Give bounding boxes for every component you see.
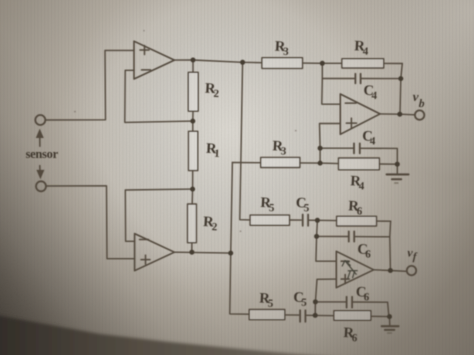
label R3 (row B)	[272, 138, 288, 157]
label R6 (row C)	[348, 198, 364, 217]
label R4 (row B)	[350, 173, 366, 192]
label R6 (row D)	[343, 325, 359, 344]
label C6 (row C)	[357, 241, 372, 260]
node: row A / line A	[240, 60, 245, 65]
node: row D C5-R6	[313, 313, 318, 318]
svg-text:1: 1	[214, 148, 220, 160]
capacitor C4 (row A) plates	[355, 74, 360, 84]
capacitor C4 (row B) plates	[354, 143, 360, 153]
pencil scribble inside U4	[342, 261, 356, 275]
node: C4a right	[398, 76, 403, 81]
label C5 (row D)	[293, 290, 308, 309]
resistor R5 (row C)	[250, 215, 289, 225]
op-amp U2 (bottom-left)	[135, 234, 175, 271]
label R3 (row A)	[274, 39, 290, 58]
wire row D segments	[285, 315, 390, 317]
resistor R6 (row C)	[337, 216, 377, 226]
node: U1 out / R2 top	[191, 58, 196, 63]
wire feedback top to U1 -	[125, 70, 193, 122]
terminal vb	[415, 110, 424, 119]
label vf	[407, 245, 419, 263]
wire row A segments	[303, 62, 403, 64]
resistor R4 (row B)	[339, 158, 380, 170]
wire U4 + input	[315, 279, 336, 315]
wire capacitor C4 row A branch	[322, 63, 402, 114]
resistor R3 (row A)	[262, 58, 303, 69]
wire capacitor C4 row B branch	[320, 148, 397, 164]
op-amp U4 (v_f)	[336, 251, 373, 287]
node: U2 out / R2 bottom	[189, 250, 194, 255]
capacitor C6 (row C) plates	[349, 231, 354, 241]
resistor R4 (row A)	[342, 59, 384, 68]
wire U3 - input	[322, 79, 341, 105]
resistor R3 (row B)	[261, 157, 300, 167]
terminal vf	[407, 266, 416, 275]
svg-text:b: b	[418, 98, 425, 110]
label vb	[412, 89, 426, 110]
wire feedback bottom to U2 -	[125, 189, 192, 241]
wire U3 + tap	[320, 124, 341, 149]
svg-text:sensor: sensor	[26, 147, 59, 161]
sensor arrow down	[39, 166, 41, 172]
label C5 (row C)	[295, 195, 310, 214]
label R1	[206, 141, 221, 160]
label R4 (row A)	[354, 38, 370, 57]
wire R1 links	[192, 121, 194, 189]
resistor R5 (row D)	[249, 310, 285, 320]
ground (row D)	[389, 317, 391, 326]
wire to resistor R2 top	[192, 60, 194, 121]
capacitor C6 (row D) plates	[347, 297, 353, 308]
node: row B R3-R4	[318, 161, 323, 166]
label C4 (row B)	[362, 128, 377, 147]
node: C6d left	[313, 299, 318, 304]
wire row C segments	[290, 220, 391, 221]
node: row A R3-R4	[320, 61, 325, 66]
ground (row B)	[396, 164, 398, 175]
node: U3 out	[397, 112, 402, 117]
resistor R1	[189, 131, 198, 170]
wire U1 output row A	[174, 60, 262, 63]
wire node B column (rowB corner to U2 out to row D)	[230, 163, 249, 315]
capacitor C5 (row D) plates	[300, 310, 305, 322]
terminal sensor bottom	[36, 181, 46, 191]
label R5 (row C)	[260, 195, 276, 214]
node: U2 out / line B	[228, 251, 233, 256]
wire capacitor C6 row C branch	[317, 220, 391, 270]
op-amp U3 (v_b)	[340, 94, 380, 134]
label R2 (bottom)	[203, 214, 219, 233]
wire U3 output to vb	[380, 113, 415, 116]
label C4 (row A)	[363, 83, 378, 102]
node: row D ground	[387, 314, 392, 319]
node: R1-R2 bottom	[190, 187, 195, 192]
node: C4b left	[318, 146, 323, 151]
wire R2 bottom links	[191, 189, 194, 252]
resistor R2 (bottom)	[188, 204, 197, 243]
node: R2-R1 top	[190, 119, 195, 124]
sensor arrow up	[39, 137, 41, 147]
node: row C C5-R6	[315, 218, 320, 223]
resistor R2 (top)	[188, 72, 198, 111]
resistor R6 (row D)	[334, 311, 371, 321]
node: C6c left	[314, 234, 319, 239]
wire U4 - input	[316, 236, 336, 261]
label R5 (row D)	[259, 291, 275, 310]
terminal sensor top	[35, 115, 45, 125]
node: U4 out	[388, 268, 393, 273]
wire capacitor C6 row D branch	[315, 302, 389, 317]
paper specks	[74, 30, 297, 232]
node: row B ground	[395, 162, 400, 167]
capacitor C5 (row C) plates	[303, 215, 308, 226]
wire node A down to row C	[240, 62, 250, 220]
op-amp U1 (top-left)	[134, 41, 174, 79]
wire sensor bottom input to op-amp U2 +	[47, 186, 135, 259]
label R2 (top)	[204, 81, 220, 100]
wire U4 output to vf	[374, 270, 407, 272]
wire U2 output row	[174, 251, 230, 254]
label C6 (row D)	[355, 284, 370, 303]
wire sensor top input to op-amp U1 +	[46, 50, 134, 120]
wire row B segments	[232, 163, 397, 165]
